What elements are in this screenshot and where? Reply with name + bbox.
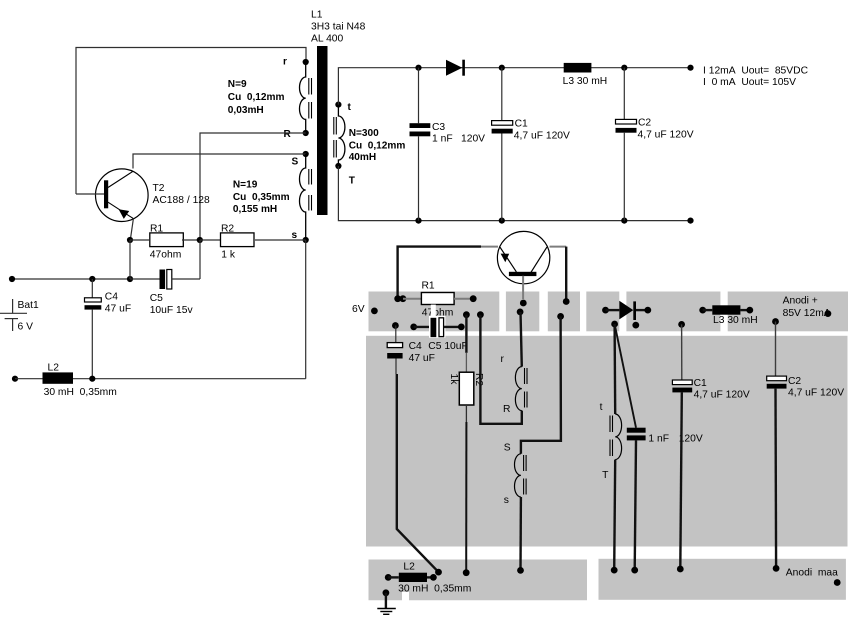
- board main region: [366, 336, 848, 547]
- svg-text:47ohm: 47ohm: [150, 250, 181, 261]
- svg-text:T: T: [602, 470, 609, 481]
- svg-text:Bat1: Bat1: [18, 300, 39, 311]
- label L1: [311, 10, 366, 45]
- label Anodi maa: [786, 568, 841, 586]
- label Anodi plus: [783, 296, 832, 320]
- svg-text:N=300: N=300: [349, 128, 379, 139]
- resistor R2 layout: [448, 311, 484, 576]
- wire R to feedback: [200, 133, 306, 240]
- svg-text:s: s: [504, 495, 509, 506]
- capacitor 1nF layout: [615, 324, 703, 573]
- svg-text:R: R: [503, 404, 510, 415]
- svg-text:C2: C2: [638, 118, 651, 129]
- wire s to bottom strip: [517, 497, 524, 574]
- transistor T2: [96, 169, 211, 222]
- svg-text:C5: C5: [150, 293, 163, 304]
- node emitter-R1: [127, 237, 133, 243]
- svg-text:47 uF: 47 uF: [105, 304, 131, 315]
- ground: [377, 589, 396, 614]
- svg-text:C3: C3: [432, 122, 445, 133]
- svg-text:C4: C4: [105, 292, 118, 303]
- wire s to ground rail: [305, 240, 307, 379]
- wire base layout: [520, 276, 527, 307]
- wire battery rail: [9, 276, 133, 282]
- wire T to bottom strip: [611, 460, 618, 574]
- wire emitter layout: [398, 247, 498, 299]
- svg-text:N=9: N=9: [228, 79, 247, 90]
- svg-text:T2: T2: [153, 183, 165, 194]
- svg-text:85V 12mA: 85V 12mA: [783, 308, 831, 319]
- inductor L2 layout: [385, 562, 472, 595]
- svg-text:C5 10uF: C5 10uF: [428, 341, 468, 352]
- transistor T2 layout: [497, 231, 549, 283]
- resistor R2: [200, 223, 306, 260]
- node r: [283, 57, 309, 68]
- wire base: [76, 193, 104, 195]
- svg-text:0,155 mH: 0,155 mH: [233, 204, 277, 215]
- wire winding-S loop: [521, 313, 564, 454]
- winding S-s layout: [504, 443, 526, 507]
- svg-text:R2: R2: [473, 373, 484, 386]
- svg-text:4,7 uF 120V: 4,7 uF 120V: [514, 130, 570, 141]
- svg-text:40mH: 40mH: [349, 152, 377, 163]
- capacitor C5: [130, 270, 200, 317]
- capacitor C3: [410, 65, 486, 224]
- wire collector layout: [550, 247, 570, 305]
- wire emitter down: [130, 219, 133, 240]
- inductor L3: [563, 63, 608, 87]
- svg-text:T: T: [349, 176, 356, 187]
- svg-text:C4: C4: [409, 341, 422, 352]
- transformer L1 core: [317, 46, 328, 215]
- svg-text:Cu 0,35mm: Cu 0,35mm: [233, 192, 290, 203]
- svg-text:I 12mA Uout= 85VDC: I 12mA Uout= 85VDC: [703, 66, 809, 77]
- capacitor C1 layout: [672, 321, 749, 572]
- svg-text:R1: R1: [150, 223, 163, 234]
- diode layout: [602, 301, 651, 329]
- svg-text:L2: L2: [48, 363, 60, 374]
- wire top loop collector-to-r: [76, 48, 306, 195]
- board strip E: [626, 292, 720, 332]
- svg-text:r: r: [501, 354, 505, 365]
- svg-text:Anodi +: Anodi +: [783, 296, 818, 307]
- svg-text:AL 400: AL 400: [311, 34, 344, 45]
- winding t-T layout: [600, 324, 622, 481]
- svg-text:30 mH 0,35mm: 30 mH 0,35mm: [44, 387, 117, 398]
- svg-text:L2: L2: [403, 562, 415, 573]
- svg-text:4,7 uF 120V: 4,7 uF 120V: [788, 388, 844, 399]
- label winding N=9: [228, 79, 285, 116]
- svg-text:120V: 120V: [461, 134, 485, 145]
- label winding N=19: [233, 180, 290, 216]
- winding r-R layout: [501, 309, 528, 416]
- svg-text:R1: R1: [422, 281, 435, 292]
- svg-text:6 V: 6 V: [18, 322, 34, 333]
- node T: [335, 163, 355, 187]
- board strip D: [586, 292, 619, 332]
- board strip F: [728, 292, 848, 332]
- node s: [292, 230, 309, 243]
- svg-text:L3 30 mH: L3 30 mH: [563, 76, 608, 87]
- svg-text:C1: C1: [694, 378, 707, 389]
- svg-text:Cu 0,12mm: Cu 0,12mm: [228, 92, 285, 103]
- winding L1 tertiary t-T: [334, 105, 345, 166]
- capacitor C5 layout: [410, 305, 467, 352]
- node C4-ground rail: [89, 376, 95, 382]
- board bottom strip left: [369, 560, 588, 601]
- svg-text:S: S: [504, 443, 511, 454]
- svg-text:C2: C2: [788, 376, 801, 387]
- label 6V: [352, 304, 378, 315]
- svg-text:t: t: [348, 102, 352, 113]
- winding L1 primary r-R: [300, 62, 312, 133]
- svg-text:N=19: N=19: [233, 180, 258, 191]
- winding L1 secondary S-s: [300, 154, 312, 240]
- wire S to collector: [133, 154, 306, 169]
- svg-text:C1: C1: [515, 119, 528, 130]
- svg-text:L3 30 mH: L3 30 mH: [713, 315, 758, 326]
- wire output bottom rail: [338, 166, 693, 224]
- battery Bat1: [0, 299, 39, 333]
- svg-text:1 k: 1 k: [221, 250, 236, 261]
- svg-text:4,7 uF 120V: 4,7 uF 120V: [694, 390, 750, 401]
- node t: [335, 102, 351, 114]
- board strip A: [369, 292, 500, 332]
- board strip C: [548, 292, 580, 332]
- node R: [284, 129, 309, 140]
- node S: [292, 151, 309, 168]
- label winding N=300: [349, 128, 406, 163]
- svg-text:S: S: [292, 157, 299, 168]
- svg-text:1k: 1k: [448, 374, 459, 386]
- svg-text:30 mH 0,35mm: 30 mH 0,35mm: [398, 584, 471, 595]
- svg-text:I 0 mA Uout= 105V: I 0 mA Uout= 105V: [703, 77, 796, 88]
- inductor L2: [12, 363, 306, 399]
- capacitor C1: [492, 65, 570, 224]
- svg-text:r: r: [283, 57, 287, 68]
- capacitor C4 layout: [387, 322, 435, 364]
- board bottom strip right: [599, 559, 846, 600]
- wire C4 to L2: [396, 359, 442, 576]
- resistor R1 layout: [394, 281, 476, 319]
- svg-text:Cu 0,12mm: Cu 0,12mm: [349, 140, 406, 151]
- svg-text:0,03mH: 0,03mH: [228, 105, 264, 116]
- svg-text:47 uF: 47 uF: [409, 353, 435, 364]
- diode D1: [446, 60, 465, 76]
- inductor L3 layout: [699, 305, 757, 326]
- svg-text:10uF 15v: 10uF 15v: [150, 305, 194, 316]
- svg-text:t: t: [600, 402, 603, 413]
- capacitor C4: [85, 276, 132, 379]
- svg-text:s: s: [292, 230, 298, 241]
- svg-text:AC188 / 128: AC188 / 128: [153, 195, 211, 206]
- svg-text:6V: 6V: [352, 304, 365, 315]
- resistor R1: [130, 223, 200, 260]
- label output: [703, 66, 809, 89]
- svg-text:4,7 uF 120V: 4,7 uF 120V: [638, 129, 694, 140]
- svg-text:3H3 tai N48: 3H3 tai N48: [311, 22, 366, 33]
- node diode anode pad: [611, 321, 618, 328]
- capacitor C2: [616, 65, 694, 224]
- svg-text:R2: R2: [221, 223, 234, 234]
- svg-text:L1: L1: [311, 10, 323, 21]
- wire winding-r loop: [477, 311, 522, 423]
- svg-text:R: R: [284, 129, 292, 140]
- board strip B: [506, 292, 539, 332]
- capacitor C2 layout: [767, 318, 845, 572]
- svg-text:Anodi maa: Anodi maa: [786, 568, 838, 579]
- wire output top rail: [338, 65, 693, 105]
- wire emitter rail drop: [129, 240, 131, 279]
- svg-text:1 nF: 1 nF: [432, 134, 453, 145]
- wire C5 to R1-R2 node: [199, 240, 201, 279]
- node R1-R2: [197, 237, 203, 243]
- svg-text:1 nF: 1 nF: [648, 434, 669, 445]
